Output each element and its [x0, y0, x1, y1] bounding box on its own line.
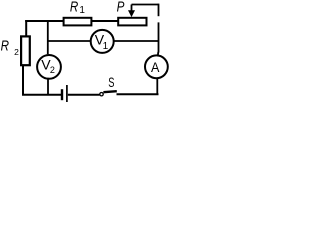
potentiometer P wiper arrow: [128, 5, 135, 18]
wire V1 row right segment: [114, 40, 159, 42]
battery long plate (positive): [66, 85, 68, 102]
switch S pivot contact circle: [100, 93, 103, 96]
label R2: [1, 39, 20, 58]
wire switch to bottom-right corner: [117, 93, 159, 95]
wire V1 row left segment (junction at inner branch): [48, 40, 91, 42]
label R1: [70, 0, 86, 16]
voltmeter V2: [37, 55, 61, 79]
svg-text:P: P: [117, 0, 125, 16]
svg-text:2: 2: [50, 65, 55, 75]
ammeter A: [145, 55, 168, 78]
resistor R1: [64, 18, 92, 26]
wire bottom left segment: [22, 94, 61, 96]
wire right vertical lower segment below ammeter: [156, 79, 158, 95]
wire wiper to top-right corner: [132, 4, 159, 6]
svg-text:S: S: [108, 74, 114, 90]
resistor R2: [21, 36, 30, 65]
switch S blade: [103, 91, 116, 92]
wire inner vertical branch from top wire to V2: [47, 21, 49, 54]
svg-text:2: 2: [14, 47, 19, 57]
wire between R1 and P: [92, 20, 119, 22]
svg-text:R: R: [70, 0, 79, 15]
wire right vertical segment below gap down to ammeter: [157, 22, 160, 55]
svg-text:1: 1: [103, 41, 109, 52]
svg-text:R: R: [1, 39, 10, 55]
wire V2 bottom branch: [47, 78, 49, 95]
potentiometer P body: [118, 18, 146, 26]
label P: [117, 0, 125, 16]
wire left vertical upper segment: [25, 20, 27, 36]
voltmeter V1: [91, 30, 114, 53]
label S: [108, 74, 114, 90]
wire right vertical upper segment (above gap): [158, 4, 160, 17]
wire battery to switch pivot: [68, 94, 100, 96]
battery short plate (negative): [61, 89, 63, 100]
wire top horizontal left segment: [25, 20, 64, 22]
svg-text:1: 1: [79, 5, 85, 16]
svg-text:A: A: [151, 59, 160, 75]
wire left vertical lower segment: [22, 66, 24, 95]
